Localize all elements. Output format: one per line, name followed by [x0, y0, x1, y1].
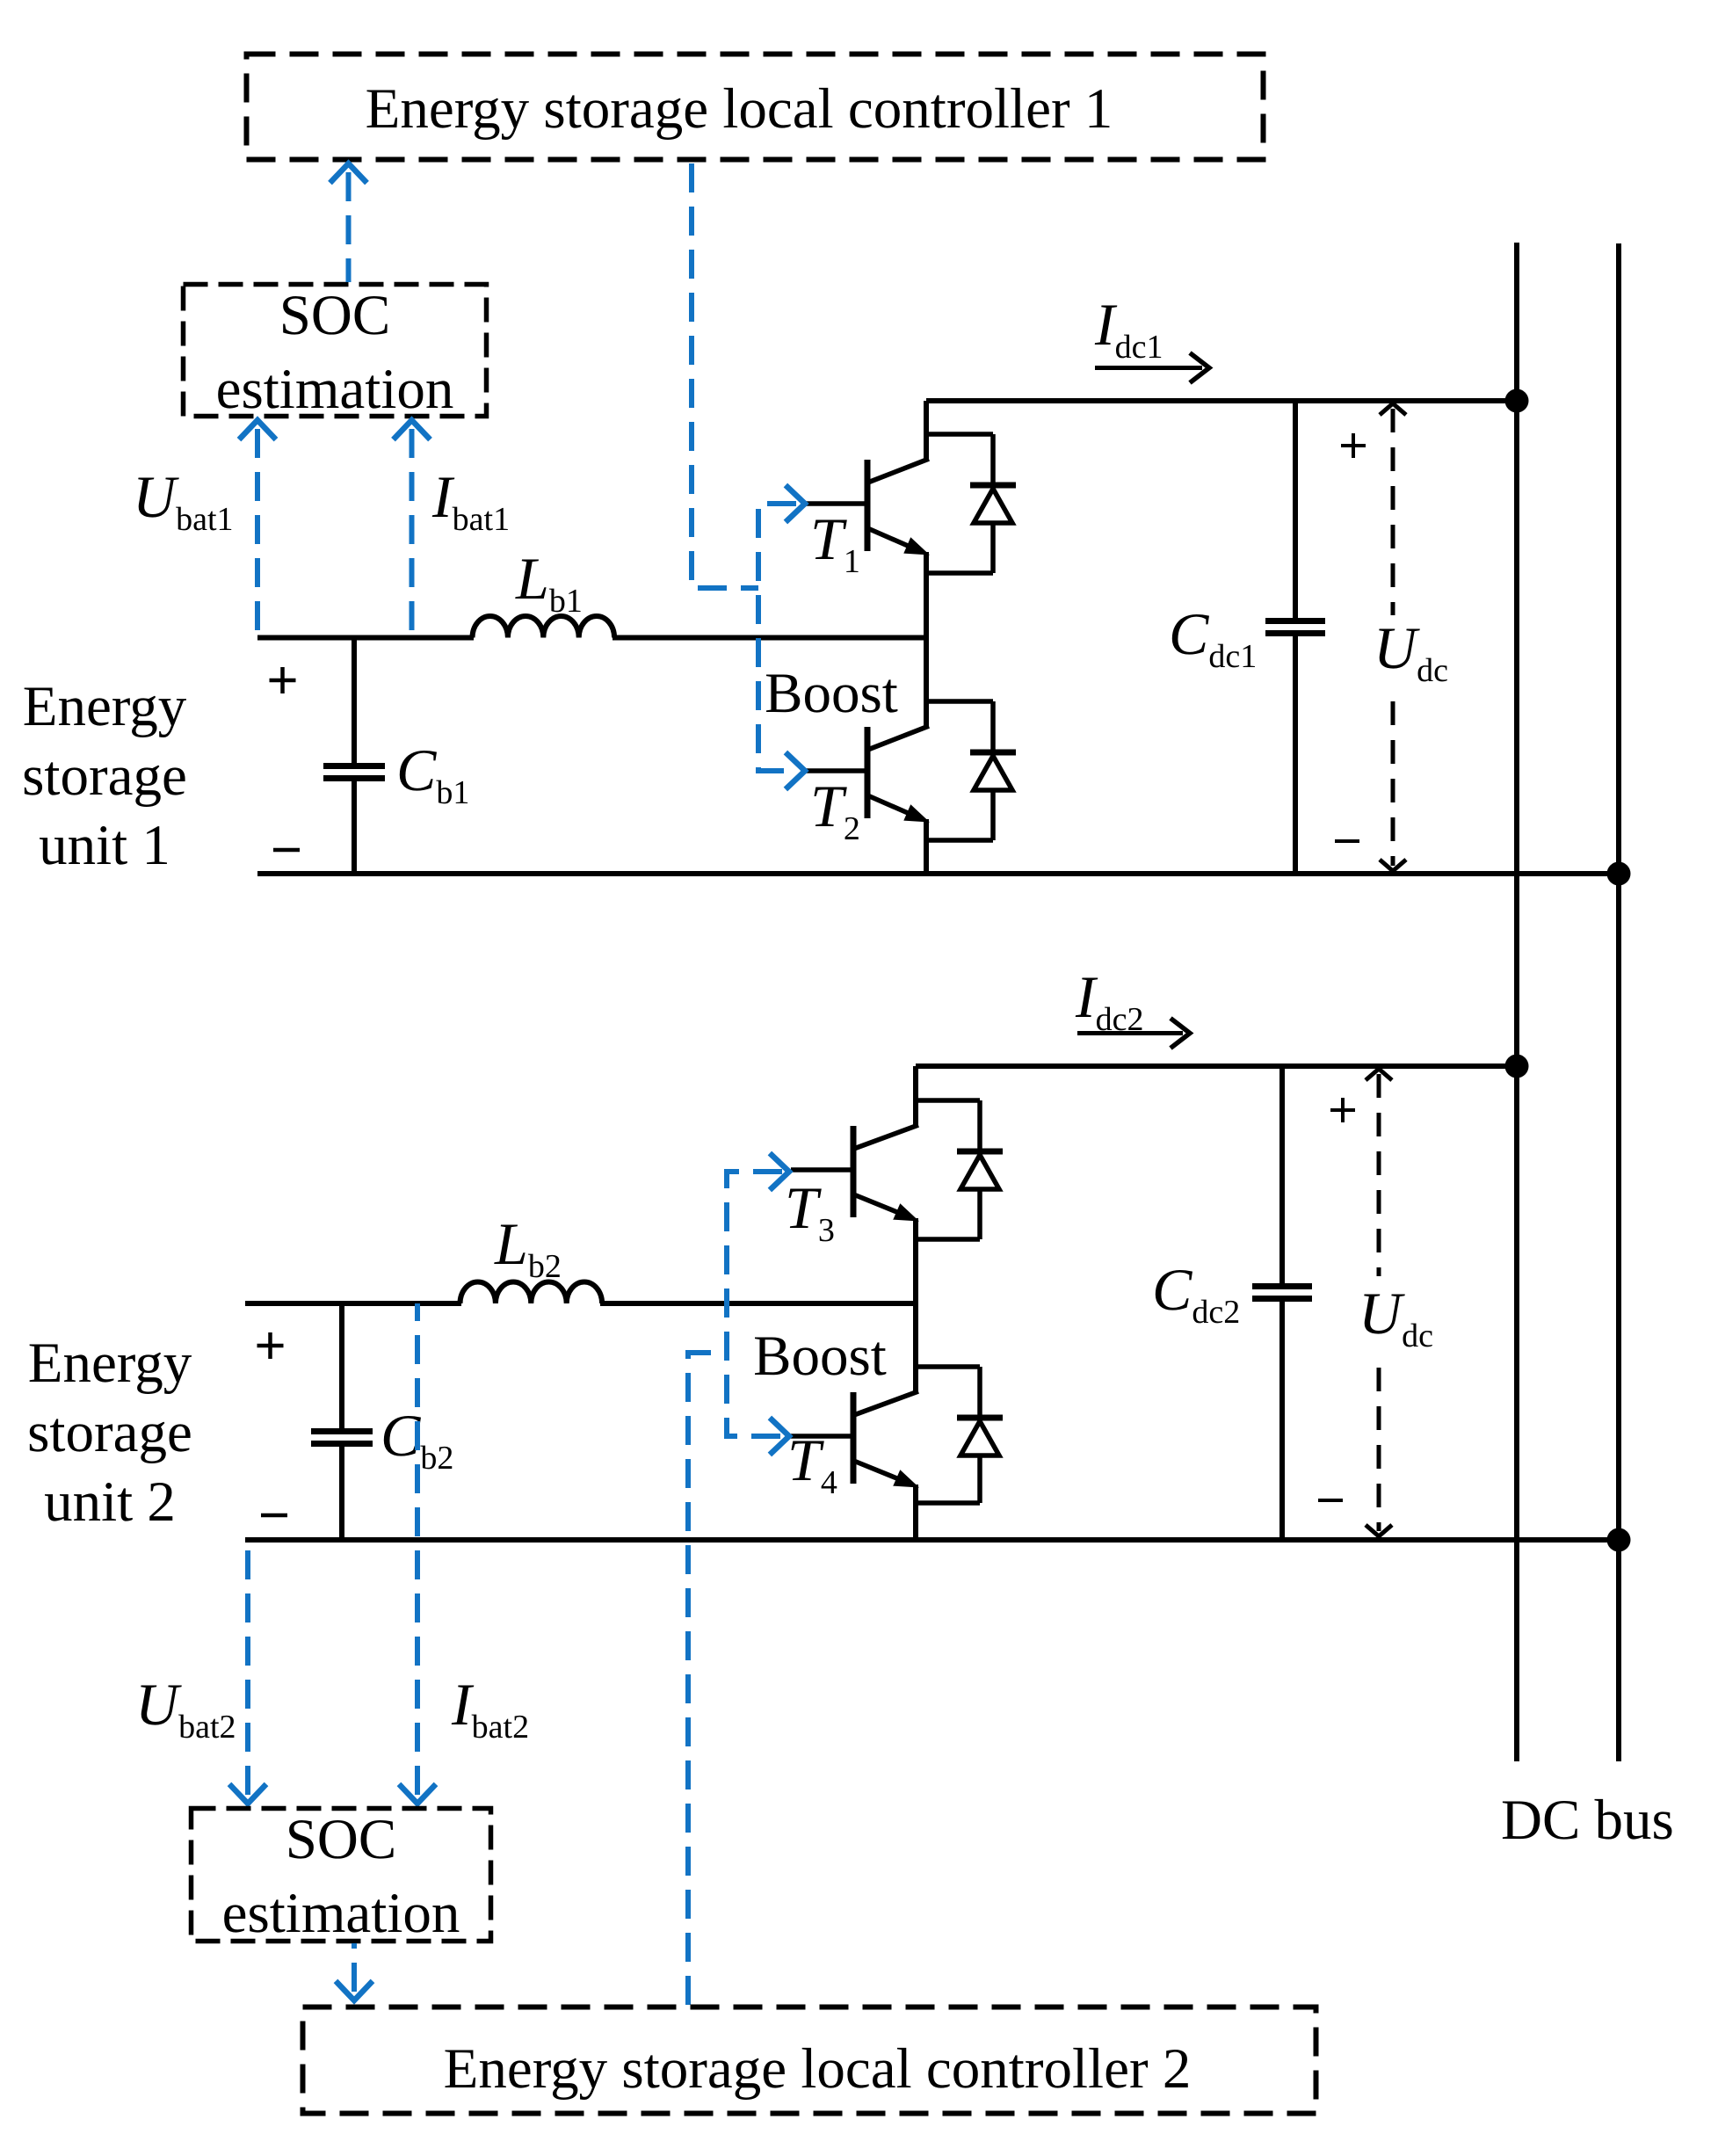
wire: capacitor Cdc2 top lead	[1279, 1066, 1285, 1284]
svg-text:DC bus: DC bus	[1501, 1789, 1674, 1852]
wire: diode D1 top tap	[926, 432, 993, 437]
gate drive feed from controller 1 (blue dashed)	[692, 163, 796, 771]
capacitor Cdc1 plates	[1265, 621, 1325, 634]
controller box U2: Energy storage local controller 2	[303, 2007, 1316, 2114]
wire: T2 emitter to negative rail	[924, 819, 929, 874]
wire: T2 collector riser	[924, 638, 929, 729]
wire: capacitor Cb2 bottom lead	[339, 1447, 344, 1541]
svg-text:estimation: estimation	[222, 1882, 460, 1945]
wire: diode D4 top tap	[916, 1364, 980, 1369]
wire: T3 collector riser	[913, 1066, 918, 1128]
wire: diode D2 bottom tap	[926, 838, 993, 843]
wire: capacitor Cdc1 top lead	[1293, 401, 1298, 619]
svg-text:unit 2: unit 2	[44, 1470, 176, 1534]
svg-text:Energy: Energy	[23, 675, 187, 738]
junction node: unit2 + rail / DC bus	[1505, 1055, 1529, 1078]
signal arrow: SOC estimation 1 to controller 1	[330, 163, 367, 282]
svg-text:Boost: Boost	[753, 1325, 887, 1388]
svg-text:estimation: estimation	[216, 358, 454, 421]
wire: unit 2 positive rail to DC bus	[916, 1063, 1519, 1069]
svg-text:storage: storage	[22, 744, 187, 808]
wire: diode D2 top tap	[926, 699, 993, 704]
signal line Ubat2 (dashed, arrow down into SOC block 2)	[229, 1540, 266, 1804]
wire: diode D4 bottom tap	[916, 1500, 980, 1506]
diode D2 (anti-parallel with T2)	[970, 701, 1016, 840]
wire: unit 2 negative rail (battery to DC bus)	[245, 1537, 1620, 1543]
wire: capacitor Cdc2 bottom lead	[1279, 1302, 1285, 1540]
svg-text:Energy: Energy	[28, 1332, 192, 1395]
transistor T4 (IGBT)	[791, 1391, 919, 1488]
DC bus line 2 (negative)	[1616, 243, 1621, 1761]
svg-text:storage: storage	[27, 1401, 192, 1464]
wire: T1 emitter to midpoint	[924, 552, 929, 640]
gate arrow into T1	[786, 485, 805, 522]
wire: capacitor Cb2 top lead	[339, 1303, 344, 1429]
inductor Lb2	[460, 1282, 603, 1304]
polarity - battery 2	[261, 1514, 287, 1518]
diode D1 (anti-parallel with T1)	[970, 434, 1016, 573]
diode D3 (anti-parallel with T3)	[957, 1100, 1003, 1239]
DC bus line 1 (positive)	[1514, 243, 1519, 1761]
current arrow Idc2	[1077, 1019, 1190, 1049]
polarity + battery 1	[270, 679, 296, 683]
signal line Ibat1 (dashed, arrow up into SOC block)	[394, 420, 431, 637]
current arrow Idc1	[1095, 353, 1209, 383]
wire: battery 1 positive to inductor	[257, 635, 474, 641]
gate arrow into T2	[786, 752, 805, 789]
transistor T3 (IGBT)	[791, 1125, 919, 1222]
gate arrow into T4	[770, 1418, 789, 1455]
wire: T1 collector riser	[924, 401, 929, 461]
signal arrow: SOC estimation 2 to controller 2	[336, 1943, 373, 2000]
wire: T4 collector riser	[913, 1303, 918, 1394]
gate drive feed from controller 2 (blue dashed)	[688, 1172, 782, 2005]
polarity + Udc2	[1330, 1108, 1355, 1112]
junction node: unit2 - rail / DC bus	[1607, 1528, 1631, 1552]
svg-text:Boost: Boost	[765, 662, 898, 725]
wire: T4 emitter to negative rail	[913, 1485, 918, 1540]
signal line Ubat1 (dashed, arrow up into SOC block)	[239, 420, 276, 637]
polarity - Udc2	[1318, 1499, 1343, 1502]
svg-text:Energy storage local controlle: Energy storage local controller 1	[366, 77, 1113, 141]
wire: T3 emitter to midpoint	[913, 1218, 918, 1306]
svg-text:SOC: SOC	[279, 284, 390, 347]
junction node: unit1 + rail / DC bus	[1505, 389, 1529, 413]
signal line Ibat2 (dashed, arrow down into SOC block 2)	[399, 1303, 436, 1804]
wire: capacitor Cb1 bottom lead	[352, 781, 357, 875]
wire: diode D3 top tap	[916, 1098, 980, 1103]
wire: diode D1 bottom tap	[926, 570, 993, 576]
wire: unit 1 negative rail (battery to DC bus)	[257, 871, 1620, 876]
wire: capacitor Cdc1 bottom lead	[1293, 636, 1298, 874]
gate arrow into T3	[770, 1153, 789, 1190]
wire: inductor Lb1 to T1/T2 midpoint	[613, 635, 926, 641]
wire: capacitor Cb1 top lead	[352, 637, 357, 764]
svg-text:SOC: SOC	[286, 1808, 396, 1871]
SOC estimation block 2	[192, 1808, 491, 1945]
controller box U1: Energy storage local controller 1	[247, 54, 1264, 160]
polarity + battery 2	[257, 1344, 284, 1348]
wire: unit 1 positive rail to DC bus	[926, 398, 1519, 403]
polarity - Udc1	[1335, 839, 1359, 843]
capacitor Cb1 plates	[323, 766, 385, 779]
capacitor Cdc2 plates	[1252, 1287, 1312, 1299]
capacitor Cb2 plates	[311, 1432, 373, 1444]
transistor T2 (IGBT)	[805, 726, 930, 823]
wire: diode D3 bottom tap	[916, 1237, 980, 1242]
junction node: unit1 - rail / DC bus	[1607, 862, 1631, 886]
svg-text:Energy storage local controlle: Energy storage local controller 2	[444, 2037, 1192, 2101]
svg-text:unit 1: unit 1	[39, 814, 170, 877]
polarity + Udc1	[1341, 444, 1366, 447]
polarity - battery 1	[273, 848, 300, 853]
diode D4 (anti-parallel with T4)	[957, 1367, 1003, 1503]
transistor T1 (IGBT)	[805, 459, 930, 555]
inductor Lb1	[473, 616, 615, 638]
voltage marker Udc (unit 2, dashed double arrow)	[1366, 1069, 1392, 1536]
voltage marker Udc (unit 1, dashed double arrow)	[1380, 403, 1406, 871]
label: Energy storage unit 1	[22, 675, 187, 877]
SOC estimation block 1	[184, 284, 487, 421]
label: Energy storage unit 2	[27, 1332, 192, 1534]
wire: battery 2 positive to inductor	[245, 1301, 461, 1306]
wire: inductor Lb2 to T3/T4 midpoint	[600, 1301, 916, 1306]
